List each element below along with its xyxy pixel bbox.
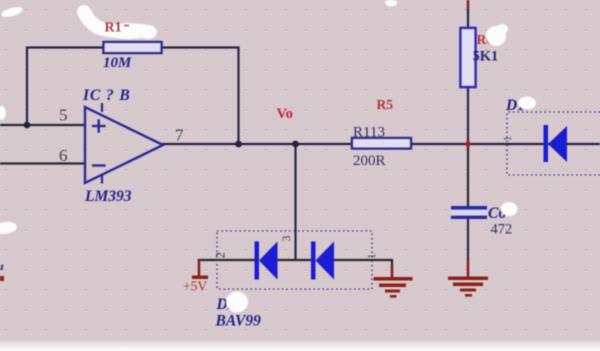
label R5 (red)	[377, 97, 394, 112]
svg-text:1: 1	[366, 254, 378, 260]
+5V label	[183, 279, 207, 294]
wire: red stub to ground under capacitor	[467, 258, 469, 278]
svg-text:+5V: +5V	[183, 279, 207, 294]
diode D1 (right)	[544, 125, 568, 162]
diode D2 designator	[216, 296, 236, 313]
wire: R6 upper lead	[467, 10, 469, 29]
ground right of clamp diodes	[374, 277, 413, 298]
diode D1 designator	[505, 97, 525, 114]
pin number 6	[59, 146, 68, 165]
svg-text:BAV99: BAV99	[215, 313, 262, 330]
svg-text:1: 1	[503, 136, 514, 141]
resistor R1 body	[104, 42, 162, 53]
op-amp U1 LM393	[85, 103, 163, 184]
D2 pin 2 number (rotated)	[213, 252, 228, 259]
resistor R6 value 5K1	[473, 49, 499, 65]
capacitor designator C	[488, 205, 506, 222]
D2 pin 1 number (rotated)	[366, 254, 378, 260]
wire: down leg to right ground	[391, 259, 393, 278]
svg-text:200R: 200R	[353, 153, 386, 169]
ground under capacitor	[448, 277, 488, 297]
wire: between clamp diodes (pin 3 node)	[276, 259, 313, 261]
junction at feedback/pin5	[24, 122, 31, 129]
resistor R6 body (vertical)	[461, 28, 476, 87]
D2 pin 3 number (rotated)	[279, 236, 293, 242]
dashed selection box around D2 (BAV99)	[217, 231, 372, 289]
diode D2 part BAV99	[215, 313, 262, 330]
resistor R5 body (R113)	[352, 138, 411, 149]
wire: right clamp diode to ground (pin 1)	[333, 259, 393, 261]
wire: input pin 6	[0, 162, 86, 164]
svg-text:5K1: 5K1	[473, 49, 499, 65]
wire: Vo down to clamp diodes	[294, 144, 296, 260]
op-amp part LM393	[84, 188, 132, 205]
svg-text:472: 472	[491, 222, 513, 238]
cut-off red mark bottom-left	[0, 276, 4, 281]
svg-text:10M: 10M	[103, 55, 132, 71]
wire: +5V to left clamp diode (pin 2)	[198, 259, 257, 261]
svg-text:u: u	[0, 259, 4, 273]
wire: capacitor lower lead	[467, 218, 469, 260]
wire: output rail (node Vo)	[162, 143, 600, 145]
junction at R6/cap node (red)	[465, 141, 471, 147]
wire: feedback right vertical	[237, 47, 239, 145]
svg-text:2: 2	[213, 252, 228, 259]
wire: feedback top segment	[27, 46, 239, 48]
R1 text repeated over blob	[105, 21, 130, 36]
junction at Vo branch	[292, 141, 299, 148]
label R1 (red)	[105, 21, 122, 36]
white-out marks	[0, 0, 536, 313]
pin number 7	[175, 126, 184, 145]
svg-text:R5: R5	[377, 97, 394, 112]
capacitor value 472	[491, 222, 513, 238]
+5V power bar symbol	[192, 276, 208, 280]
resistor R1 value 10M	[103, 55, 132, 71]
svg-text:7: 7	[175, 126, 184, 145]
label R6 (red)	[477, 32, 494, 47]
capacitor C body	[451, 206, 487, 219]
svg-text:Vo: Vo	[277, 106, 293, 122]
svg-text:5: 5	[59, 106, 68, 125]
svg-text:R1: R1	[105, 21, 122, 36]
svg-text:LM393: LM393	[84, 188, 132, 205]
junction at feedback/output	[235, 141, 242, 148]
wire: R6 lower lead to rail	[467, 86, 469, 144]
diode D2a (left clamp diode)	[255, 242, 278, 280]
wire: rail down to capacitor	[467, 144, 469, 207]
svg-text:R113: R113	[353, 125, 385, 141]
node label Vo	[277, 106, 293, 122]
D1 pin 1 number (rotated)	[503, 136, 514, 141]
wire: feedback left vertical	[26, 47, 28, 126]
svg-text:IC ? B: IC ? B	[82, 87, 131, 104]
diode D2b (right clamp diode)	[311, 242, 334, 280]
op-amp designator IC ? B	[82, 87, 131, 104]
wire: input pin 5	[0, 124, 86, 126]
resistor R5 name R113	[353, 125, 385, 141]
pin number 5	[59, 106, 68, 125]
cut-off label at left edge	[0, 259, 4, 273]
svg-text:3: 3	[279, 236, 293, 242]
dashed selection box around D1	[507, 112, 600, 175]
resistor R5 value 200R	[353, 153, 386, 169]
svg-text:6: 6	[59, 146, 68, 165]
wire: +5V leg	[198, 259, 200, 276]
wire: R6 top red stub (power from above)	[467, 0, 469, 11]
bottom white fade	[0, 339, 600, 351]
